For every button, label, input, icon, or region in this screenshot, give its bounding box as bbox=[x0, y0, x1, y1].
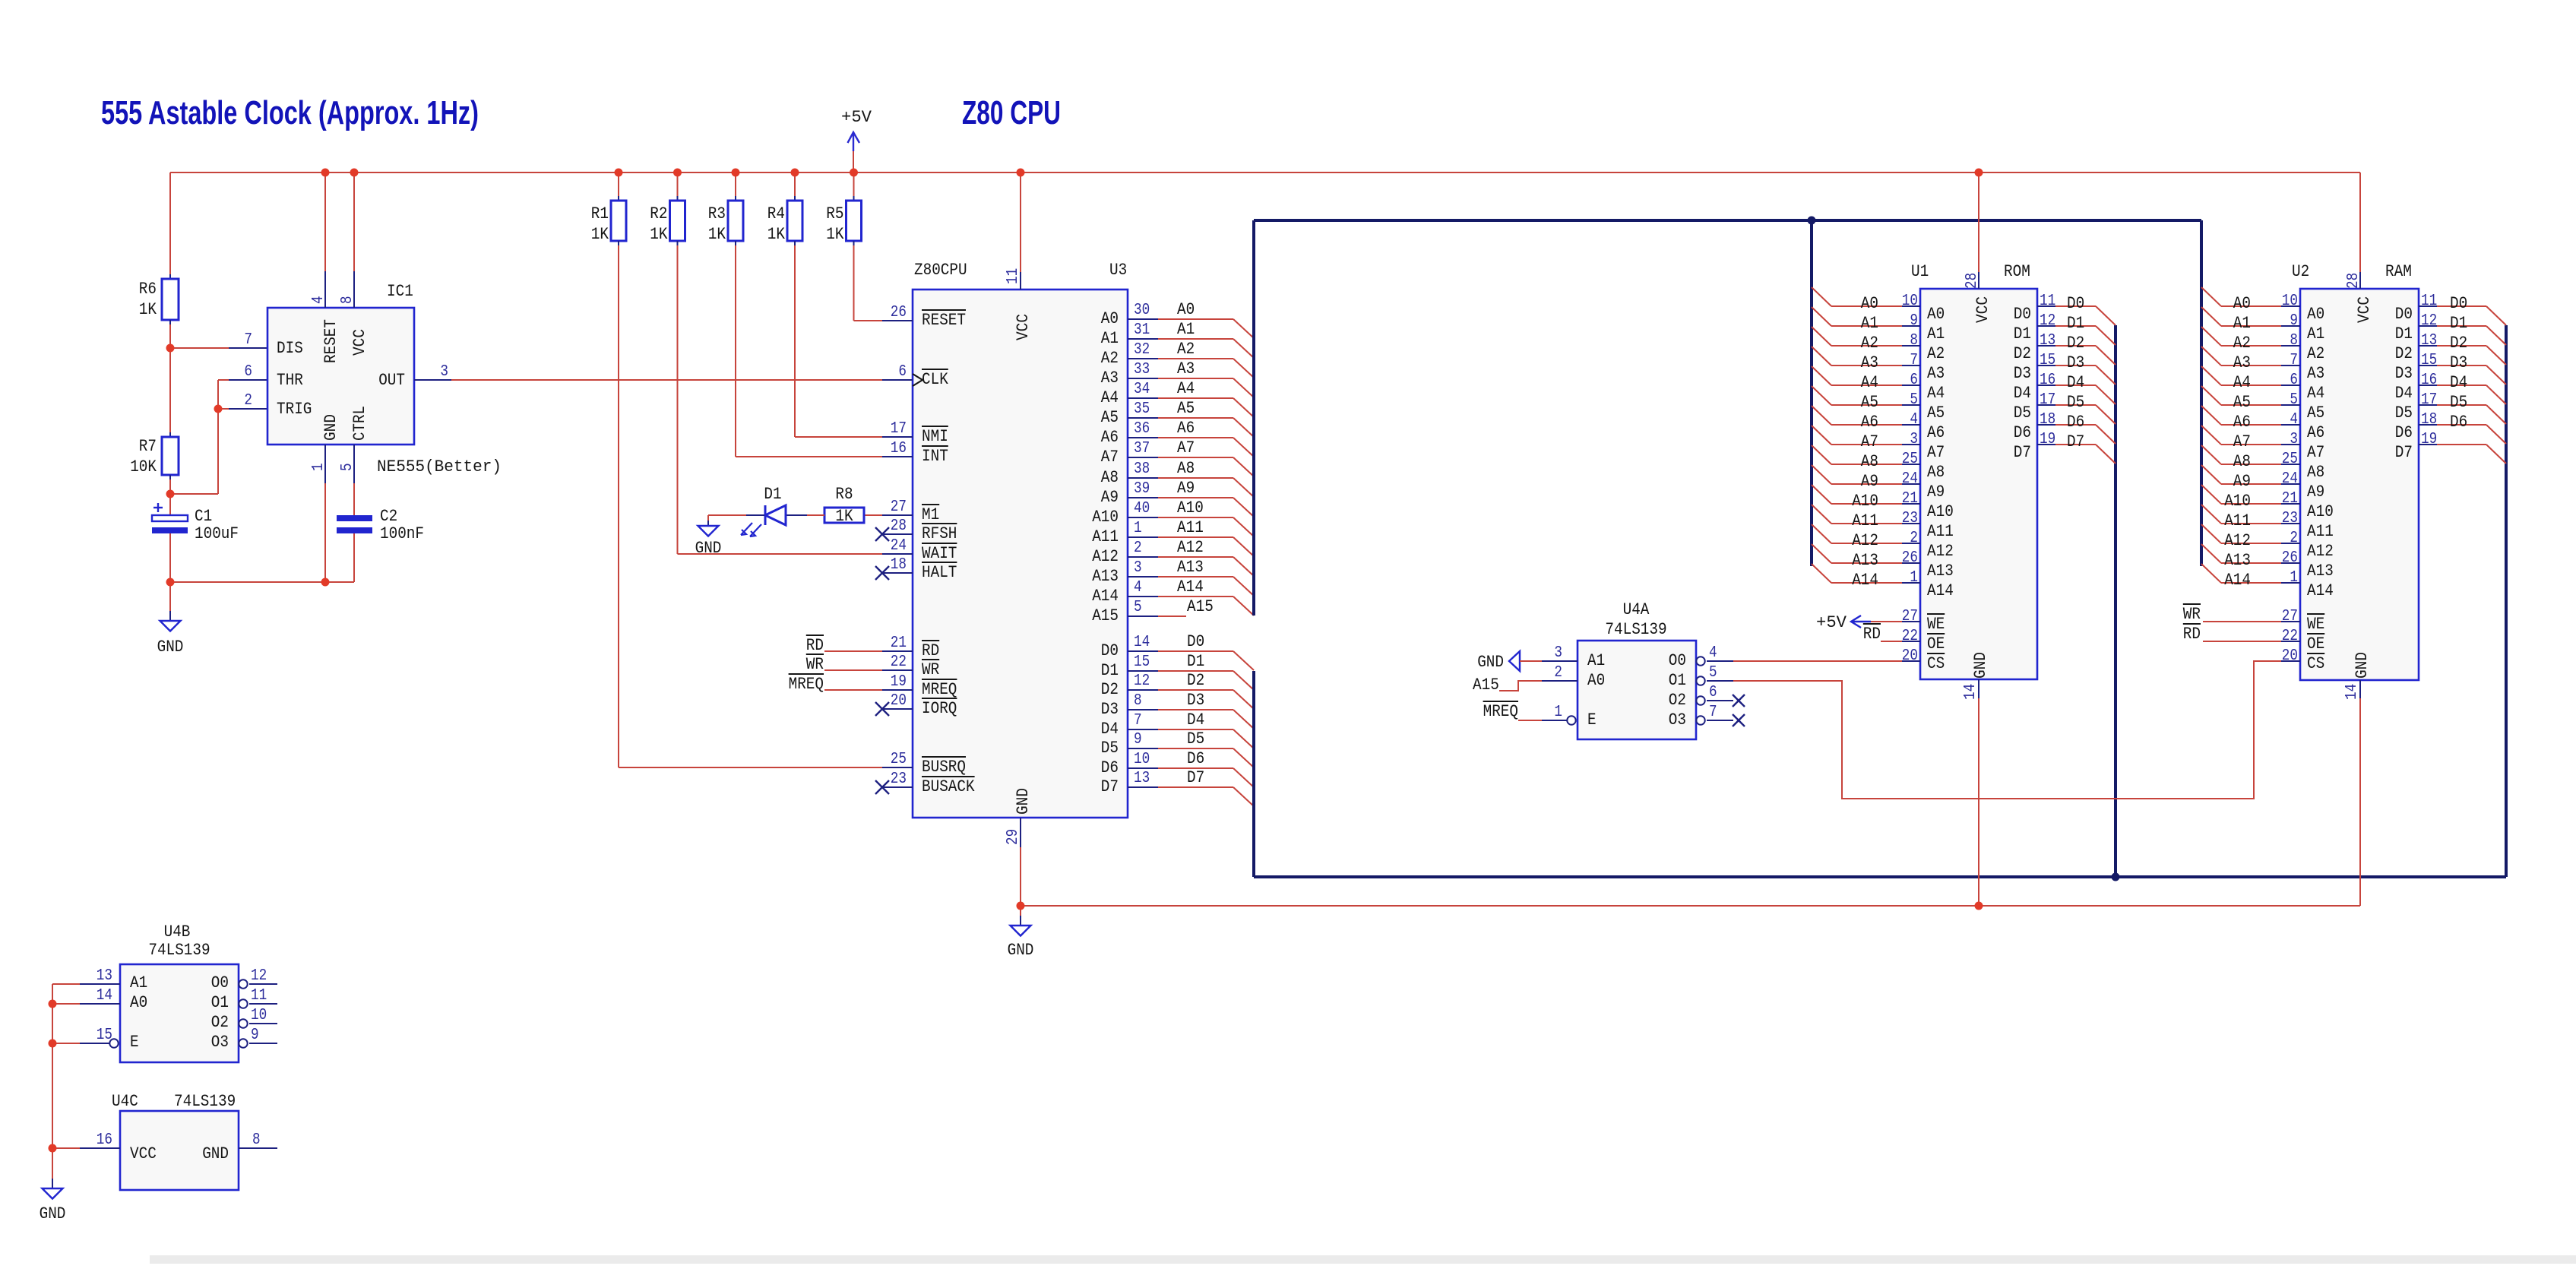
svg-text:A0: A0 bbox=[1177, 300, 1195, 319]
svg-text:A12: A12 bbox=[1927, 542, 1954, 561]
svg-text:7: 7 bbox=[1134, 712, 1142, 729]
svg-text:D3: D3 bbox=[2450, 353, 2467, 372]
svg-text:RFSH: RFSH bbox=[922, 524, 957, 543]
svg-text:1K: 1K bbox=[591, 225, 609, 244]
svg-text:A2: A2 bbox=[1861, 334, 1878, 353]
svg-text:16: 16 bbox=[2040, 372, 2055, 389]
svg-text:GND: GND bbox=[1014, 788, 1033, 815]
svg-text:31: 31 bbox=[1134, 321, 1150, 339]
svg-text:16: 16 bbox=[2421, 372, 2437, 389]
svg-text:8: 8 bbox=[1134, 692, 1142, 710]
svg-text:A3: A3 bbox=[1101, 369, 1119, 388]
svg-text:A0: A0 bbox=[130, 993, 147, 1012]
svg-text:10K: 10K bbox=[130, 457, 157, 476]
svg-text:A14: A14 bbox=[1092, 587, 1119, 606]
svg-text:VCC: VCC bbox=[130, 1144, 157, 1163]
svg-text:A8: A8 bbox=[1861, 452, 1878, 471]
svg-text:A13: A13 bbox=[2224, 551, 2251, 570]
svg-text:A13: A13 bbox=[2307, 562, 2334, 581]
svg-text:D2: D2 bbox=[2067, 334, 2084, 353]
svg-text:A1: A1 bbox=[2307, 324, 2324, 343]
svg-text:A7: A7 bbox=[1101, 448, 1119, 467]
svg-text:CS: CS bbox=[2307, 654, 2324, 673]
svg-text:D5: D5 bbox=[1101, 739, 1119, 758]
svg-text:D6: D6 bbox=[2450, 413, 2467, 432]
svg-text:IC1: IC1 bbox=[387, 282, 413, 301]
svg-text:3: 3 bbox=[2290, 431, 2298, 448]
svg-text:R6: R6 bbox=[139, 280, 157, 299]
svg-text:U2: U2 bbox=[2292, 262, 2309, 281]
svg-text:WE: WE bbox=[2307, 615, 2324, 634]
svg-text:D3: D3 bbox=[2395, 364, 2413, 383]
svg-text:74LS139: 74LS139 bbox=[174, 1092, 236, 1111]
svg-text:9: 9 bbox=[251, 1027, 259, 1044]
svg-text:16: 16 bbox=[97, 1131, 112, 1149]
svg-text:Z80CPU: Z80CPU bbox=[914, 261, 967, 280]
svg-text:14: 14 bbox=[1962, 684, 1979, 700]
svg-text:7: 7 bbox=[1709, 704, 1717, 721]
svg-text:D5: D5 bbox=[2395, 403, 2413, 422]
svg-text:4: 4 bbox=[310, 296, 328, 304]
svg-text:D0: D0 bbox=[2450, 294, 2467, 313]
svg-text:2: 2 bbox=[1554, 664, 1562, 682]
svg-text:D2: D2 bbox=[1187, 671, 1204, 690]
svg-text:O1: O1 bbox=[211, 993, 229, 1012]
svg-text:100nF: 100nF bbox=[380, 524, 424, 543]
svg-text:A7: A7 bbox=[1927, 443, 1945, 462]
svg-text:D5: D5 bbox=[1187, 729, 1204, 748]
svg-text:D1: D1 bbox=[2014, 324, 2031, 343]
svg-text:A0: A0 bbox=[1927, 305, 1945, 324]
svg-text:7: 7 bbox=[2290, 352, 2298, 369]
svg-text:WE: WE bbox=[1927, 615, 1945, 634]
svg-text:16: 16 bbox=[891, 440, 907, 457]
svg-text:23: 23 bbox=[1902, 510, 1918, 527]
svg-text:A3: A3 bbox=[2307, 364, 2324, 383]
svg-text:24: 24 bbox=[1902, 470, 1918, 488]
svg-text:22: 22 bbox=[2282, 628, 2298, 645]
svg-text:U4B: U4B bbox=[164, 922, 191, 941]
svg-text:A1: A1 bbox=[1587, 651, 1605, 670]
svg-text:GND: GND bbox=[1971, 652, 1990, 679]
svg-text:35: 35 bbox=[1134, 400, 1150, 418]
svg-text:39: 39 bbox=[1134, 480, 1150, 498]
svg-text:1K: 1K bbox=[139, 300, 157, 319]
svg-text:D3: D3 bbox=[1187, 691, 1204, 710]
svg-text:A0: A0 bbox=[1861, 294, 1878, 313]
svg-text:26: 26 bbox=[1902, 549, 1918, 567]
svg-text:15: 15 bbox=[1134, 653, 1150, 671]
svg-text:6: 6 bbox=[1709, 684, 1717, 701]
svg-text:D5: D5 bbox=[2067, 393, 2084, 412]
svg-text:28: 28 bbox=[1964, 273, 1981, 289]
svg-text:A13: A13 bbox=[1852, 551, 1878, 570]
svg-text:A13: A13 bbox=[1927, 562, 1954, 581]
svg-text:8: 8 bbox=[1910, 332, 1918, 350]
svg-text:23: 23 bbox=[2282, 510, 2298, 527]
svg-text:20: 20 bbox=[2282, 647, 2298, 665]
svg-text:A10: A10 bbox=[2224, 492, 2251, 511]
svg-text:D1: D1 bbox=[1101, 661, 1119, 680]
svg-text:A12: A12 bbox=[2307, 542, 2334, 561]
svg-text:E: E bbox=[1587, 710, 1597, 729]
svg-text:A8: A8 bbox=[2307, 463, 2324, 482]
svg-text:9: 9 bbox=[2290, 312, 2298, 330]
svg-text:D6: D6 bbox=[2014, 423, 2031, 442]
svg-text:OE: OE bbox=[1927, 634, 1945, 653]
svg-text:9: 9 bbox=[1134, 731, 1142, 748]
svg-text:15: 15 bbox=[2421, 352, 2437, 369]
svg-text:17: 17 bbox=[2421, 391, 2437, 409]
svg-text:74LS139: 74LS139 bbox=[1605, 620, 1666, 639]
svg-text:A6: A6 bbox=[1177, 419, 1195, 438]
svg-text:D6: D6 bbox=[1101, 758, 1119, 777]
svg-text:VCC: VCC bbox=[2355, 296, 2374, 323]
svg-text:DIS: DIS bbox=[277, 339, 303, 358]
svg-text:4: 4 bbox=[1910, 411, 1918, 429]
svg-text:9: 9 bbox=[1910, 312, 1918, 330]
svg-text:12: 12 bbox=[2040, 312, 2055, 330]
svg-text:O2: O2 bbox=[211, 1013, 229, 1032]
svg-text:GND: GND bbox=[202, 1144, 229, 1163]
svg-text:U3: U3 bbox=[1109, 261, 1127, 280]
svg-text:A4: A4 bbox=[1177, 379, 1195, 398]
svg-text:THR: THR bbox=[277, 371, 303, 390]
svg-text:25: 25 bbox=[2282, 451, 2298, 468]
svg-text:A14: A14 bbox=[1852, 571, 1878, 590]
svg-text:26: 26 bbox=[2282, 549, 2298, 567]
svg-text:A4: A4 bbox=[2233, 373, 2251, 392]
svg-text:5: 5 bbox=[1709, 664, 1717, 682]
svg-text:R2: R2 bbox=[650, 204, 667, 223]
svg-text:11: 11 bbox=[1005, 268, 1022, 284]
svg-text:A0: A0 bbox=[2233, 294, 2251, 313]
svg-text:A1: A1 bbox=[1177, 320, 1195, 339]
svg-text:A7: A7 bbox=[2233, 432, 2251, 451]
svg-text:A11: A11 bbox=[1852, 511, 1878, 530]
svg-text:17: 17 bbox=[891, 420, 907, 438]
svg-text:D3: D3 bbox=[1101, 700, 1119, 719]
svg-text:10: 10 bbox=[251, 1007, 267, 1024]
svg-text:O1: O1 bbox=[1669, 671, 1686, 690]
svg-text:A5: A5 bbox=[1861, 393, 1878, 412]
svg-text:22: 22 bbox=[891, 653, 907, 671]
svg-text:D0: D0 bbox=[1187, 632, 1204, 651]
svg-text:10: 10 bbox=[1134, 751, 1150, 768]
svg-text:D4: D4 bbox=[2395, 384, 2413, 403]
svg-text:A4: A4 bbox=[2307, 384, 2324, 403]
svg-text:A7: A7 bbox=[1177, 438, 1195, 457]
svg-text:A11: A11 bbox=[1177, 518, 1204, 537]
svg-text:D1: D1 bbox=[2067, 314, 2084, 333]
svg-text:GND: GND bbox=[157, 638, 184, 657]
svg-text:22: 22 bbox=[1902, 628, 1918, 645]
svg-text:D2: D2 bbox=[2014, 344, 2031, 363]
svg-text:A9: A9 bbox=[2233, 472, 2251, 491]
svg-text:GND: GND bbox=[321, 414, 340, 441]
svg-text:A5: A5 bbox=[1101, 408, 1119, 427]
svg-text:A6: A6 bbox=[1927, 423, 1945, 442]
svg-text:R4: R4 bbox=[767, 204, 785, 223]
svg-text:A12: A12 bbox=[1852, 531, 1878, 550]
svg-text:A15: A15 bbox=[1473, 676, 1499, 695]
svg-text:C2: C2 bbox=[380, 507, 397, 526]
svg-text:D0: D0 bbox=[2395, 305, 2413, 324]
svg-text:M1: M1 bbox=[922, 505, 939, 524]
svg-text:A3: A3 bbox=[1177, 359, 1195, 378]
svg-text:D3: D3 bbox=[2014, 364, 2031, 383]
svg-text:D0: D0 bbox=[2067, 294, 2084, 313]
svg-text:A7: A7 bbox=[2307, 443, 2324, 462]
svg-text:R8: R8 bbox=[835, 485, 853, 504]
svg-text:555 Astable Clock (Approx. 1Hz: 555 Astable Clock (Approx. 1Hz) bbox=[101, 94, 479, 131]
svg-text:17: 17 bbox=[2040, 391, 2055, 409]
svg-text:A6: A6 bbox=[2307, 423, 2324, 442]
svg-text:C1: C1 bbox=[195, 507, 212, 526]
svg-text:10: 10 bbox=[2282, 293, 2298, 310]
svg-text:A0: A0 bbox=[1587, 671, 1605, 690]
svg-text:OUT: OUT bbox=[378, 371, 405, 390]
svg-text:1: 1 bbox=[1554, 704, 1562, 721]
svg-text:A11: A11 bbox=[2224, 511, 2251, 530]
svg-text:CTRL: CTRL bbox=[350, 406, 369, 441]
svg-text:IORQ: IORQ bbox=[922, 699, 957, 718]
svg-text:D6: D6 bbox=[2395, 423, 2413, 442]
svg-text:1: 1 bbox=[1910, 569, 1918, 587]
svg-text:25: 25 bbox=[891, 751, 907, 768]
svg-text:A2: A2 bbox=[1101, 349, 1119, 368]
svg-text:37: 37 bbox=[1134, 440, 1150, 457]
svg-text:D1: D1 bbox=[2395, 324, 2413, 343]
svg-text:27: 27 bbox=[1902, 608, 1918, 625]
svg-text:10: 10 bbox=[1902, 293, 1918, 310]
svg-text:3: 3 bbox=[1554, 644, 1562, 662]
svg-text:WR: WR bbox=[806, 655, 824, 674]
svg-text:VCC: VCC bbox=[1973, 296, 1992, 323]
svg-text:CLK: CLK bbox=[922, 370, 948, 389]
svg-text:A3: A3 bbox=[1861, 353, 1878, 372]
svg-text:2: 2 bbox=[1910, 530, 1918, 547]
svg-text:O0: O0 bbox=[211, 973, 229, 992]
svg-text:24: 24 bbox=[891, 537, 907, 555]
svg-text:D2: D2 bbox=[2395, 344, 2413, 363]
svg-text:U4A: U4A bbox=[1623, 600, 1650, 619]
svg-text:15: 15 bbox=[2040, 352, 2055, 369]
svg-text:GND: GND bbox=[695, 539, 722, 558]
svg-text:GND: GND bbox=[2353, 652, 2372, 679]
svg-text:A8: A8 bbox=[2233, 452, 2251, 471]
svg-text:O0: O0 bbox=[1669, 651, 1686, 670]
svg-text:WAIT: WAIT bbox=[922, 544, 957, 563]
svg-text:5: 5 bbox=[1910, 391, 1918, 409]
svg-text:A8: A8 bbox=[1177, 459, 1195, 478]
svg-text:1: 1 bbox=[2290, 569, 2298, 587]
svg-text:A1: A1 bbox=[1861, 314, 1878, 333]
svg-text:11: 11 bbox=[2421, 293, 2437, 310]
svg-text:A15: A15 bbox=[1092, 606, 1119, 625]
svg-text:A9: A9 bbox=[1101, 488, 1119, 507]
svg-text:23: 23 bbox=[891, 771, 907, 788]
svg-text:32: 32 bbox=[1134, 341, 1150, 359]
svg-text:A7: A7 bbox=[1861, 432, 1878, 451]
svg-text:A14: A14 bbox=[1927, 581, 1954, 600]
svg-text:14: 14 bbox=[1134, 634, 1150, 651]
svg-text:A15: A15 bbox=[1187, 597, 1214, 616]
svg-text:O3: O3 bbox=[1669, 710, 1686, 729]
svg-text:36: 36 bbox=[1134, 420, 1150, 438]
svg-text:D7: D7 bbox=[2067, 432, 2084, 451]
svg-text:2: 2 bbox=[2290, 530, 2298, 547]
svg-text:RD: RD bbox=[806, 636, 824, 655]
svg-text:A0: A0 bbox=[1101, 309, 1119, 328]
svg-text:A14: A14 bbox=[1177, 578, 1204, 597]
svg-text:A10: A10 bbox=[2307, 502, 2334, 521]
svg-text:Z80 CPU: Z80 CPU bbox=[962, 94, 1061, 131]
svg-text:100uF: 100uF bbox=[195, 524, 239, 543]
svg-text:21: 21 bbox=[891, 634, 907, 652]
svg-text:4: 4 bbox=[2290, 411, 2298, 429]
svg-text:15: 15 bbox=[97, 1027, 112, 1044]
svg-text:13: 13 bbox=[97, 967, 112, 985]
svg-text:33: 33 bbox=[1134, 361, 1150, 378]
svg-text:38: 38 bbox=[1134, 460, 1150, 478]
svg-text:30: 30 bbox=[1134, 302, 1150, 319]
svg-text:D6: D6 bbox=[2067, 413, 2084, 432]
svg-text:1: 1 bbox=[1134, 520, 1142, 537]
svg-text:D1: D1 bbox=[764, 485, 781, 504]
svg-text:A10: A10 bbox=[1177, 498, 1204, 517]
svg-text:74LS139: 74LS139 bbox=[148, 941, 210, 960]
svg-text:20: 20 bbox=[891, 692, 907, 710]
svg-text:13: 13 bbox=[2040, 332, 2055, 350]
svg-text:19: 19 bbox=[2421, 431, 2437, 448]
svg-text:18: 18 bbox=[2040, 411, 2055, 429]
svg-text:VCC: VCC bbox=[1014, 314, 1033, 340]
svg-text:NMI: NMI bbox=[922, 427, 948, 446]
svg-text:40: 40 bbox=[1134, 500, 1150, 517]
svg-text:1K: 1K bbox=[650, 225, 668, 244]
svg-text:25: 25 bbox=[1902, 451, 1918, 468]
svg-text:28: 28 bbox=[891, 517, 907, 535]
svg-text:20: 20 bbox=[1902, 647, 1918, 665]
svg-text:A0: A0 bbox=[2307, 305, 2324, 324]
svg-text:U4C: U4C bbox=[112, 1092, 138, 1111]
svg-text:A6: A6 bbox=[1101, 428, 1119, 447]
svg-text:8: 8 bbox=[252, 1131, 261, 1149]
svg-text:A8: A8 bbox=[1927, 463, 1945, 482]
svg-text:A4: A4 bbox=[1927, 384, 1945, 403]
svg-text:18: 18 bbox=[2421, 411, 2437, 429]
svg-text:RD: RD bbox=[922, 641, 939, 660]
svg-text:3: 3 bbox=[1910, 431, 1918, 448]
svg-text:4: 4 bbox=[1134, 579, 1142, 597]
svg-text:13: 13 bbox=[2421, 332, 2437, 350]
svg-text:5: 5 bbox=[2290, 391, 2298, 409]
svg-text:D7: D7 bbox=[1101, 777, 1119, 796]
svg-text:11: 11 bbox=[251, 987, 267, 1005]
svg-text:A9: A9 bbox=[1927, 483, 1945, 502]
svg-text:D7: D7 bbox=[2395, 443, 2413, 462]
svg-text:A6: A6 bbox=[2233, 413, 2251, 432]
svg-text:D0: D0 bbox=[2014, 305, 2031, 324]
svg-text:U1: U1 bbox=[1911, 262, 1929, 281]
svg-text:MREQ: MREQ bbox=[1483, 702, 1518, 721]
svg-text:27: 27 bbox=[891, 498, 907, 516]
svg-text:29: 29 bbox=[1005, 829, 1022, 845]
svg-text:19: 19 bbox=[2040, 431, 2055, 448]
svg-text:TRIG: TRIG bbox=[277, 400, 312, 419]
svg-text:RESET: RESET bbox=[922, 311, 966, 330]
svg-text:HALT: HALT bbox=[922, 563, 957, 582]
svg-text:A5: A5 bbox=[2233, 393, 2251, 412]
svg-text:34: 34 bbox=[1134, 381, 1150, 398]
svg-text:+5V: +5V bbox=[841, 108, 872, 127]
svg-text:5: 5 bbox=[1134, 599, 1142, 616]
svg-text:A2: A2 bbox=[2233, 334, 2251, 353]
svg-text:8: 8 bbox=[339, 296, 356, 304]
svg-text:D5: D5 bbox=[2014, 403, 2031, 422]
svg-text:A1: A1 bbox=[1101, 329, 1119, 348]
svg-text:A8: A8 bbox=[1101, 468, 1119, 487]
svg-text:A1: A1 bbox=[2233, 314, 2251, 333]
svg-text:21: 21 bbox=[1902, 490, 1918, 508]
svg-text:8: 8 bbox=[2290, 332, 2298, 350]
svg-text:A6: A6 bbox=[1861, 413, 1878, 432]
svg-text:14: 14 bbox=[2343, 684, 2361, 700]
svg-text:BUSACK: BUSACK bbox=[922, 777, 975, 796]
svg-text:1K: 1K bbox=[835, 507, 853, 526]
svg-text:O2: O2 bbox=[1669, 691, 1686, 710]
svg-text:A12: A12 bbox=[2224, 531, 2251, 550]
svg-text:BUSRQ: BUSRQ bbox=[922, 758, 966, 777]
svg-text:D4: D4 bbox=[1187, 710, 1204, 729]
svg-text:D4: D4 bbox=[2067, 373, 2084, 392]
svg-text:14: 14 bbox=[97, 987, 112, 1005]
svg-text:A3: A3 bbox=[1927, 364, 1945, 383]
svg-text:A10: A10 bbox=[1852, 492, 1878, 511]
svg-text:R3: R3 bbox=[708, 204, 726, 223]
svg-text:D4: D4 bbox=[2014, 384, 2031, 403]
svg-text:RAM: RAM bbox=[2385, 262, 2412, 281]
svg-text:A13: A13 bbox=[1177, 558, 1204, 577]
svg-text:RD: RD bbox=[1863, 625, 1881, 644]
svg-text:26: 26 bbox=[891, 304, 907, 321]
svg-text:19: 19 bbox=[891, 673, 907, 691]
svg-text:GND: GND bbox=[1477, 653, 1504, 672]
svg-text:6: 6 bbox=[898, 363, 907, 381]
svg-text:INT: INT bbox=[922, 447, 948, 466]
svg-text:A9: A9 bbox=[1177, 479, 1195, 498]
svg-text:A10: A10 bbox=[1927, 502, 1954, 521]
svg-text:GND: GND bbox=[40, 1204, 66, 1223]
svg-text:A4: A4 bbox=[1861, 373, 1878, 392]
svg-text:WR: WR bbox=[922, 660, 939, 679]
svg-text:O3: O3 bbox=[211, 1033, 229, 1052]
svg-text:WR: WR bbox=[2183, 605, 2201, 624]
svg-text:A1: A1 bbox=[1927, 324, 1945, 343]
svg-text:A2: A2 bbox=[2307, 344, 2324, 363]
svg-text:OE: OE bbox=[2307, 634, 2324, 653]
svg-text:D0: D0 bbox=[1101, 641, 1119, 660]
svg-text:D1: D1 bbox=[1187, 652, 1204, 671]
svg-text:2: 2 bbox=[244, 392, 252, 410]
svg-text:6: 6 bbox=[244, 363, 252, 381]
svg-text:A5: A5 bbox=[2307, 403, 2324, 422]
svg-text:D7: D7 bbox=[1187, 768, 1204, 787]
svg-text:12: 12 bbox=[2421, 312, 2437, 330]
svg-text:12: 12 bbox=[251, 967, 267, 985]
svg-text:27: 27 bbox=[2282, 608, 2298, 625]
